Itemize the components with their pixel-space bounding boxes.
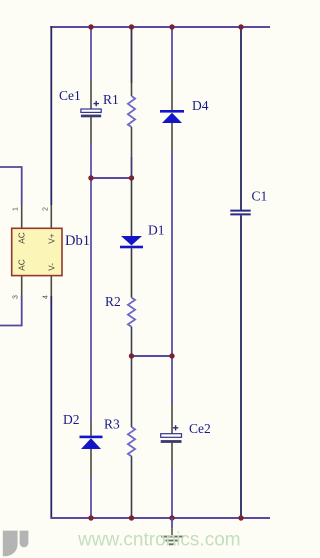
svg-text:3: 3 xyxy=(13,295,20,299)
svg-text:V+: V+ xyxy=(47,233,56,243)
wire R3 to bottom rail xyxy=(131,456,133,518)
capacitor Ce1 xyxy=(81,101,101,117)
wire column Ce1/D2 middle xyxy=(90,117,92,436)
svg-text:Ce2: Ce2 xyxy=(189,421,211,436)
svg-text:2: 2 xyxy=(43,207,50,211)
diode D4 xyxy=(160,110,184,123)
wire Ce2 to bottom rail xyxy=(171,442,173,518)
resistor R3 xyxy=(128,427,135,456)
wire pin4 V- down to bottom rail xyxy=(50,276,52,519)
junction dots bottom rail xyxy=(88,515,243,520)
svg-text:R1: R1 xyxy=(103,92,119,107)
svg-text:C1: C1 xyxy=(252,189,268,204)
wire mid rail Ce1-R1 xyxy=(91,177,132,179)
wire mid rail to D1 xyxy=(131,178,133,236)
svg-text:www.cntronics.com: www.cntronics.com xyxy=(77,530,241,551)
wire mid rail R2-Ce2 xyxy=(132,355,173,357)
wire AC input 2 xyxy=(0,276,22,326)
svg-text:Ce1: Ce1 xyxy=(59,88,81,103)
capacitor Ce2 xyxy=(161,425,182,443)
capacitor C1 xyxy=(230,211,250,215)
svg-text:Db1: Db1 xyxy=(65,233,90,249)
wire bottom rail xyxy=(50,517,270,519)
svg-text:AC: AC xyxy=(17,259,26,270)
bridge rectifier Db1 xyxy=(12,228,62,275)
wire mid rail 2 to R3 xyxy=(131,356,133,427)
wire column C1 top xyxy=(240,27,242,210)
junction dots mid rail 1 xyxy=(88,175,134,180)
svg-text:1: 1 xyxy=(13,207,20,211)
wire column Ce1/D2 lower xyxy=(90,449,92,518)
svg-text:D2: D2 xyxy=(63,412,80,427)
junction dots mid rail 2 xyxy=(129,353,175,358)
wire column R1/D1/R2/R3 top xyxy=(131,27,133,96)
svg-text:V-: V- xyxy=(47,263,56,271)
wire C1 to bottom rail xyxy=(240,215,242,518)
wire R2 to mid rail 2 xyxy=(131,327,133,356)
wire column D4/Ce2 top xyxy=(171,27,173,110)
wire D1 to R2 xyxy=(131,248,133,297)
svg-text:D4: D4 xyxy=(192,98,209,113)
diode D1 xyxy=(120,236,143,248)
junction dots top rail xyxy=(88,24,243,29)
svg-text:R3: R3 xyxy=(104,417,120,432)
wire left vertical (pin2 to top rail) xyxy=(50,26,52,229)
svg-text:AC: AC xyxy=(17,232,26,243)
ground xyxy=(161,518,183,544)
resistor R1 xyxy=(128,96,135,127)
svg-text:R2: R2 xyxy=(105,294,121,309)
wire D4 to Ce2 xyxy=(171,123,173,434)
svg-text:4: 4 xyxy=(43,295,50,299)
diode D2 xyxy=(80,436,103,449)
wire top rail V+ xyxy=(50,26,270,28)
resistor R2 xyxy=(128,298,135,327)
logo bottom-left xyxy=(3,531,29,557)
wire AC input 1 xyxy=(0,167,22,229)
wire R1 to mid rail xyxy=(131,127,133,178)
svg-text:D1: D1 xyxy=(148,223,165,238)
wire column Ce1/D2 upper xyxy=(90,27,92,110)
